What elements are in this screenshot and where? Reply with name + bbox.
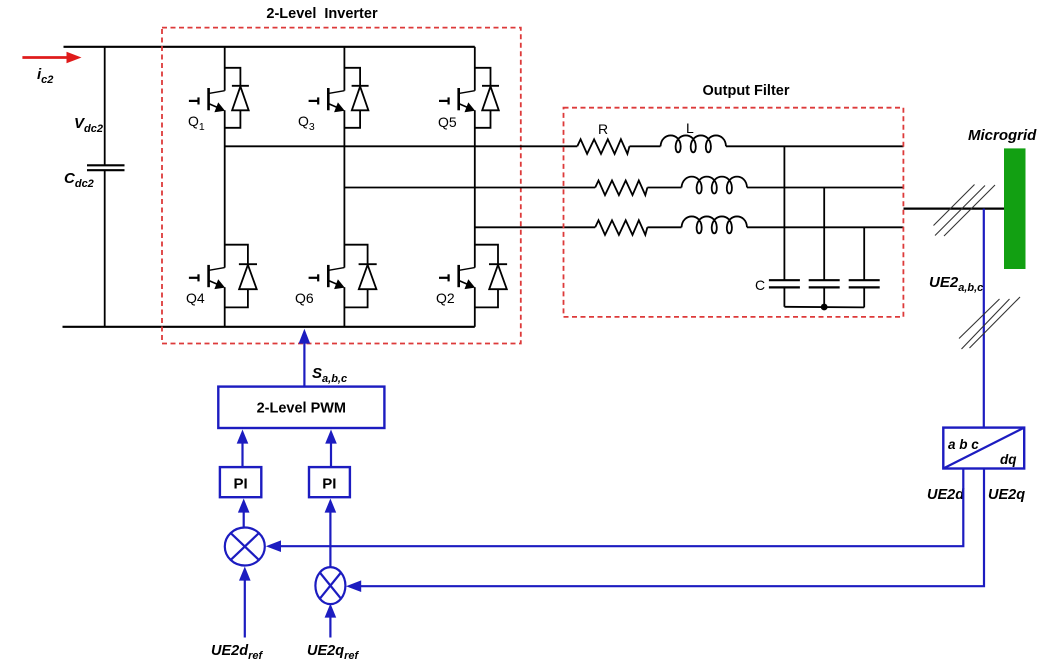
wire: bottom DC bus: [63, 326, 475, 328]
junction dot on capacitor rail: [821, 304, 828, 311]
svg-text:PI: PI: [234, 476, 248, 493]
svg-text:a b c: a b c: [948, 437, 979, 452]
wire: UE2abc measurement line (blue vertical): [983, 209, 985, 428]
resistor R phase A: [577, 139, 629, 154]
block PI right: [309, 467, 350, 497]
wire: phase leg B: [343, 47, 345, 327]
wire: phase A line R to L: [630, 145, 661, 147]
resistor phase C: [595, 220, 647, 235]
transistor Q6 with diode: [309, 245, 377, 308]
arrowhead right into PWM: [325, 430, 337, 444]
wire: phase C line after L: [747, 226, 904, 228]
svg-text:Q5: Q5: [438, 114, 457, 130]
arrowhead into right PI: [325, 499, 337, 513]
svg-text:Q4: Q4: [186, 290, 205, 306]
wire: cap branch B vertical: [823, 188, 825, 281]
wire: left PI to PWM arrow: [241, 440, 243, 467]
svg-text:Q2: Q2: [436, 290, 455, 306]
2-Level Inverter dashed box: [162, 28, 521, 344]
wire: UE2q feedback path: [360, 469, 984, 587]
microgrid green bar: [1004, 148, 1026, 269]
svg-text:R: R: [598, 121, 608, 137]
svg-text:Cdc2: Cdc2: [64, 170, 94, 190]
current arrow ic2 (red): [22, 52, 81, 64]
wire: phase B line after L: [747, 187, 904, 189]
wire: three-phase bus to microgrid: [904, 208, 1005, 210]
wire: cap B lower stub: [823, 287, 825, 307]
transistor Q4 with diode: [189, 245, 257, 308]
inductor phase C: [682, 216, 748, 233]
wire: left DC link vertical (lower): [104, 170, 106, 327]
multiplier left (circle with X): [225, 528, 265, 566]
block PI left: [220, 467, 261, 497]
svg-text:UE2qref: UE2qref: [307, 643, 359, 662]
svg-text:L: L: [686, 120, 694, 136]
arrowhead UE2q into multiplier: [346, 580, 361, 592]
capacitor C phase C: [849, 280, 880, 287]
wire: phase leg C: [474, 47, 476, 327]
svg-text:dq: dq: [1000, 452, 1017, 467]
three-phase hatch marks on measurement line: [959, 297, 1020, 349]
arrowhead left into PWM: [237, 430, 249, 444]
capacitor C phase B: [809, 280, 840, 287]
wire: cap branch C vertical: [863, 227, 865, 280]
wire: UE2q_ref input arrow: [329, 614, 331, 638]
transistor Q2 with diode: [439, 245, 507, 308]
wire: PWM gate signal line: [303, 341, 305, 387]
svg-text:Vdc2: Vdc2: [74, 115, 103, 135]
wire: phase B output line: [344, 187, 595, 189]
svg-text:UE2dref: UE2dref: [211, 643, 263, 662]
arrowhead UE2d into multiplier: [266, 540, 281, 552]
wire: phase leg A: [224, 47, 226, 327]
transistor Q1 with diode: [189, 68, 249, 128]
wire: cap C lower stub: [863, 287, 865, 307]
wire: left multiplier to PI arrow: [243, 509, 245, 528]
wire: right PI to PWM arrow: [330, 440, 332, 467]
Output Filter dashed box: [564, 108, 904, 317]
inductor phase B: [682, 177, 748, 194]
svg-text:Q3: Q3: [298, 113, 315, 133]
arrowhead gate signal into inverter: [299, 329, 311, 344]
wire: UE2d_ref input arrow: [244, 577, 246, 638]
wire: right multiplier to PI arrow: [329, 509, 331, 567]
svg-text:Microgrid: Microgrid: [968, 127, 1037, 144]
svg-text:2-Level Inverter: 2-Level Inverter: [266, 6, 378, 22]
wire: UE2d feedback path: [279, 469, 963, 547]
wire: cap A lower stub: [783, 287, 785, 306]
block 2-Level PWM: [218, 387, 384, 428]
resistor phase B: [595, 181, 647, 196]
capacitor C phase A: [769, 280, 800, 287]
wire: phase C output line: [475, 226, 595, 228]
transistor Q3 with diode: [309, 68, 369, 128]
arrowhead UE2d_ref into multiplier: [239, 567, 251, 581]
svg-text:UE2a,b,c: UE2a,b,c: [929, 274, 983, 294]
svg-text:2-Level PWM: 2-Level PWM: [257, 401, 346, 417]
svg-text:C: C: [755, 277, 765, 293]
svg-text:Sa,b,c: Sa,b,c: [312, 365, 347, 385]
inductor L phase A: [661, 135, 727, 152]
transistor Q5 with diode: [439, 68, 499, 128]
svg-text:ic2: ic2: [37, 66, 53, 86]
svg-text:Q6: Q6: [295, 290, 314, 306]
abc to dq transform block: [943, 428, 1024, 469]
wire: phase A line after L: [726, 145, 904, 147]
multiplier right (ellipse with X): [315, 567, 345, 604]
wire: capacitor common rail: [784, 306, 864, 309]
svg-text:UE2q: UE2q: [988, 487, 1025, 503]
arrowhead UE2q_ref into multiplier: [325, 604, 337, 618]
svg-text:PI: PI: [322, 476, 336, 493]
wire: top DC bus: [64, 46, 475, 48]
capacitor Cdc2 plates: [87, 165, 125, 170]
svg-text:Q1: Q1: [188, 113, 205, 133]
wire: phase A output line: [225, 145, 578, 147]
wire: phase B line R to L: [647, 187, 681, 189]
svg-text:UE2d: UE2d: [927, 487, 965, 503]
arrowhead into left PI: [238, 499, 250, 513]
wire: left DC link vertical (upper): [104, 47, 106, 166]
three-phase hatch marks on bus: [934, 185, 996, 237]
wire: cap branch A vertical: [783, 146, 785, 280]
svg-text:Output Filter: Output Filter: [703, 83, 790, 99]
wire: phase C line R to L: [647, 226, 681, 228]
